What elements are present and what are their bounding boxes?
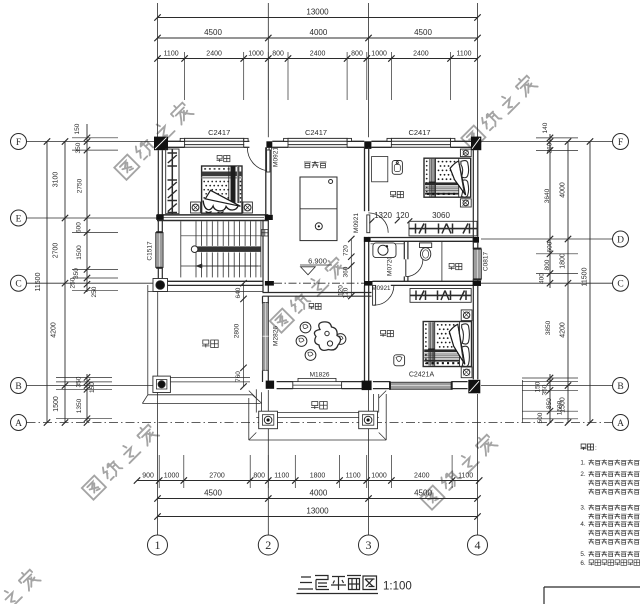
wall middle-room left bbox=[262, 296, 264, 303]
dim extension stubs right bbox=[536, 137, 578, 139]
dim line left small chain bbox=[86, 124, 88, 292]
bed bedroom1 fold triangle bbox=[205, 190, 240, 206]
tea set stool2 bbox=[296, 336, 307, 347]
door M0921 master arc bbox=[374, 285, 394, 305]
svg-text:2750: 2750 bbox=[77, 178, 84, 193]
wall axis 3 upper bbox=[364, 147, 366, 211]
axis bubble A right bbox=[613, 415, 629, 431]
stair handrail bbox=[193, 246, 261, 252]
wall middle-room top bbox=[263, 292, 372, 294]
stair flight outline bbox=[181, 235, 261, 237]
wall axis B seg1 bbox=[277, 381, 293, 383]
svg-text:1500: 1500 bbox=[53, 396, 60, 412]
wall axis 3 lower bbox=[364, 237, 366, 281]
svg-text:1800: 1800 bbox=[310, 472, 326, 479]
svg-text:4.: 4. bbox=[580, 521, 586, 528]
column F/3 bbox=[364, 141, 371, 149]
wall bathroom inner divider bbox=[441, 241, 443, 281]
wall top exterior segment 3 bbox=[272, 140, 288, 142]
svg-text:4: 4 bbox=[475, 538, 481, 552]
label tea room bbox=[309, 304, 315, 310]
tea set table bbox=[314, 322, 340, 351]
window C1517 in left wall bbox=[156, 233, 163, 268]
nightstand bedroom1 right bbox=[243, 202, 253, 213]
dim line top total 13000 bbox=[158, 17, 478, 19]
svg-text:2: 2 bbox=[265, 538, 271, 552]
notes header bbox=[581, 444, 587, 450]
svg-text:1500: 1500 bbox=[76, 245, 83, 260]
inner dim 640/2800/760 bbox=[243, 283, 245, 386]
terrace-bottom parapet lines bbox=[255, 389, 257, 412]
dim line right 4000/1800/4200/1500 bbox=[567, 142, 569, 423]
axis bubble B left bbox=[11, 378, 27, 394]
bed master dotted edge bbox=[425, 324, 427, 326]
tea set stool3 bbox=[335, 334, 346, 345]
svg-text:350: 350 bbox=[75, 142, 82, 153]
terrace-left top edge line bbox=[148, 291, 263, 293]
axis bubble 1 bottom bbox=[148, 535, 168, 555]
grid axis line F bbox=[27, 141, 157, 143]
svg-text:760: 760 bbox=[235, 371, 242, 382]
sink counter bbox=[373, 243, 396, 258]
column F/1 bbox=[154, 137, 168, 151]
grid axis line D bbox=[481, 238, 613, 240]
svg-text:1100: 1100 bbox=[164, 50, 179, 57]
wall axis D bbox=[371, 237, 473, 239]
svg-text:1000: 1000 bbox=[371, 472, 387, 479]
svg-text:B: B bbox=[15, 382, 21, 392]
axis bubble A left bbox=[11, 415, 27, 431]
watermark 1 top-left bbox=[114, 100, 193, 180]
label terrace-bottom bbox=[311, 402, 319, 410]
stair landing edge bbox=[180, 221, 182, 277]
svg-text::: : bbox=[595, 445, 597, 452]
svg-text:C2421A: C2421A bbox=[409, 372, 435, 379]
svg-text:1800: 1800 bbox=[560, 253, 567, 269]
svg-text:2400: 2400 bbox=[413, 50, 429, 57]
wall axis 2 interior bbox=[265, 147, 267, 215]
door M2826 sliding panels bbox=[263, 303, 269, 371]
svg-text:4500: 4500 bbox=[414, 488, 432, 497]
svg-text:F: F bbox=[618, 138, 623, 148]
desk bedroom2 bbox=[372, 157, 388, 182]
svg-text:3850: 3850 bbox=[545, 320, 552, 335]
svg-text:3640: 3640 bbox=[544, 188, 551, 203]
wall axis B seg4 bbox=[451, 381, 467, 383]
svg-text:140: 140 bbox=[542, 122, 549, 133]
svg-text:2700: 2700 bbox=[209, 472, 225, 479]
terrace-left parapet bottom lines bbox=[158, 376, 250, 378]
bed bedroom1 duvet squiggle bbox=[203, 201, 238, 211]
svg-text:1000: 1000 bbox=[248, 50, 264, 57]
svg-text:1.: 1. bbox=[580, 460, 586, 467]
svg-text:1100: 1100 bbox=[274, 472, 289, 479]
window C2421A in B wall bbox=[390, 382, 451, 389]
watermark 3 center bbox=[270, 255, 347, 332]
grid axis line A dash-dot across bbox=[27, 422, 613, 424]
axis bubble 4 bottom bbox=[468, 535, 488, 555]
dim line right small chain bbox=[549, 134, 551, 288]
bed master blanket stripe bbox=[428, 322, 435, 366]
column E/1 bbox=[156, 215, 164, 220]
wall axis E bbox=[157, 215, 268, 221]
svg-text:1320: 1320 bbox=[374, 211, 392, 220]
wall left exterior lower bbox=[157, 268, 159, 281]
nightstand bedroom1 left bbox=[191, 202, 201, 213]
svg-text:13000: 13000 bbox=[306, 506, 329, 515]
axis bubble 2 bottom bbox=[258, 535, 278, 555]
svg-text:C2417: C2417 bbox=[208, 128, 230, 137]
wall axis B seg3 bbox=[373, 381, 391, 383]
column D/4 bbox=[473, 237, 479, 243]
svg-text:M2826: M2826 bbox=[273, 326, 280, 346]
wall axis C stair part bbox=[163, 280, 263, 282]
axis bubble D right bbox=[613, 231, 629, 247]
wall top exterior segment 2 bbox=[244, 140, 250, 142]
svg-text:C1517: C1517 bbox=[147, 241, 154, 261]
svg-text:C2417: C2417 bbox=[408, 128, 430, 137]
bed master foot bands bbox=[424, 349, 459, 352]
dim line top 4500/4000/4500 bbox=[158, 37, 478, 39]
terrace-left parapet left lines bbox=[147, 285, 149, 395]
stair label down bbox=[262, 230, 269, 237]
label bathroom bbox=[449, 264, 455, 270]
svg-text:M0720: M0720 bbox=[387, 256, 394, 276]
svg-text:C2417: C2417 bbox=[305, 128, 327, 137]
label bedroom1 bbox=[217, 156, 223, 162]
bed bedroom2 mattress dots bbox=[438, 161, 440, 163]
column C/3 bbox=[364, 281, 373, 286]
note item 4c bbox=[589, 539, 595, 545]
bed bedroom2 blanket stripe bbox=[429, 159, 436, 197]
svg-text:D: D bbox=[617, 235, 624, 245]
column F/2 bbox=[266, 141, 272, 149]
axis bubble B right bbox=[613, 378, 629, 394]
grid axis line C bbox=[27, 282, 157, 284]
dim line bottom small chain bbox=[137, 480, 479, 482]
dim extension verticals top minor bbox=[184, 52, 186, 100]
wall top exterior segment 5 bbox=[371, 140, 391, 142]
svg-text:1100: 1100 bbox=[456, 50, 471, 57]
svg-text:13000: 13000 bbox=[306, 8, 329, 17]
nightstand master top bbox=[461, 310, 472, 321]
dim extension stubs left bbox=[72, 137, 118, 139]
label terrace-left bbox=[202, 340, 210, 348]
svg-text:150: 150 bbox=[535, 381, 542, 392]
svg-text:A: A bbox=[617, 419, 624, 429]
svg-text:1100: 1100 bbox=[458, 472, 473, 479]
label master bedroom bbox=[380, 331, 386, 337]
closet master bbox=[410, 289, 471, 303]
svg-text:1: 1 bbox=[155, 538, 161, 552]
svg-text:1500: 1500 bbox=[557, 400, 564, 415]
axis bubble 3 bottom bbox=[359, 535, 379, 555]
svg-text:350: 350 bbox=[542, 384, 549, 395]
svg-text:A: A bbox=[15, 419, 22, 429]
tea set stool1 bbox=[300, 322, 311, 333]
stair treads bbox=[195, 221, 197, 246]
bed bedroom1 mattress dots bbox=[203, 181, 205, 183]
wall top exterior segment 6 bbox=[451, 140, 472, 142]
bed master fold wedge bbox=[449, 324, 465, 364]
door M0921 bedroom1 arc bbox=[247, 148, 266, 171]
svg-text:3100: 3100 bbox=[53, 172, 60, 188]
column C/1 ornate bbox=[153, 279, 168, 292]
svg-text:3.: 3. bbox=[580, 505, 586, 512]
column E/2 bbox=[265, 215, 273, 220]
door M1826 sliding panels bbox=[293, 382, 342, 389]
svg-text:800: 800 bbox=[544, 259, 551, 270]
wardrobe bedroom1 bbox=[166, 149, 179, 214]
svg-text:4000: 4000 bbox=[310, 488, 328, 497]
svg-text:4200: 4200 bbox=[560, 322, 567, 338]
terrace-bottom slab outline bbox=[248, 398, 250, 440]
bed bedroom2 pillows bbox=[458, 158, 460, 197]
column B/1 ornate bbox=[153, 376, 171, 392]
axis bubble F left bbox=[11, 134, 27, 150]
dim line top small chain bbox=[158, 58, 478, 60]
wall top exterior segment 4 bbox=[347, 140, 364, 142]
column B/4 bbox=[468, 380, 480, 394]
svg-text:2400: 2400 bbox=[206, 50, 222, 57]
dim line bottom 4500/4000/4500 bbox=[158, 498, 478, 500]
stool bedroom2 bbox=[392, 161, 402, 175]
door M0921 bedroom1 leaf bbox=[267, 150, 270, 172]
wall right exterior lower bbox=[472, 279, 474, 281]
svg-text:M1826: M1826 bbox=[310, 372, 330, 379]
watermark 4 bottom-left bbox=[82, 422, 159, 499]
wall axis 3 C-to-B bbox=[364, 285, 366, 381]
svg-text:5.: 5. bbox=[580, 551, 586, 558]
terrace-bottom slab corner miters bbox=[249, 391, 256, 399]
svg-text:4000: 4000 bbox=[560, 182, 567, 198]
grid axis vertical 4 bbox=[477, 3, 479, 137]
wall axis C master part bbox=[373, 280, 482, 282]
svg-text:1100: 1100 bbox=[346, 472, 361, 479]
label game hall bbox=[304, 162, 311, 168]
wall stair-hall boundary bbox=[262, 220, 264, 293]
svg-text:360: 360 bbox=[547, 142, 554, 153]
svg-text:4200: 4200 bbox=[51, 322, 58, 338]
svg-text:4500: 4500 bbox=[204, 28, 222, 37]
svg-text:800: 800 bbox=[351, 50, 363, 57]
grid axis vertical 2 bbox=[267, 3, 269, 137]
svg-text:2700: 2700 bbox=[53, 243, 60, 259]
grid axis vertical 1 bbox=[157, 3, 159, 137]
grid axis vertical 3 bbox=[368, 3, 370, 137]
window C2417 no.1 bbox=[184, 137, 244, 139]
axis bubble C left bbox=[11, 275, 27, 291]
column C/4 bbox=[473, 281, 481, 286]
terrace-bottom ornate column right bbox=[359, 411, 378, 429]
svg-text:1:100: 1:100 bbox=[383, 581, 412, 593]
svg-text:250: 250 bbox=[91, 286, 98, 297]
bed bedroom2 foot bands bbox=[425, 182, 459, 185]
grid axis dashdot C inside plan bbox=[274, 282, 364, 284]
grid axis line E bbox=[27, 217, 157, 219]
door M0720 arc bbox=[406, 260, 423, 277]
svg-text:6.: 6. bbox=[580, 560, 586, 567]
wall top exterior segment 1 bbox=[168, 140, 185, 142]
bed master foot dotted row bbox=[426, 362, 428, 364]
svg-text:800: 800 bbox=[272, 50, 284, 57]
toilet bbox=[420, 243, 432, 248]
stair direction arrow bbox=[196, 265, 258, 267]
svg-text:11500: 11500 bbox=[35, 272, 42, 291]
svg-text:3: 3 bbox=[366, 538, 372, 552]
terrace-bottom ornate column left bbox=[259, 411, 278, 429]
column B/3 bbox=[362, 381, 372, 391]
svg-text:640: 640 bbox=[235, 287, 242, 298]
dim line bottom total 13000 bbox=[158, 516, 478, 518]
label bedroom2 bbox=[390, 192, 396, 198]
wall right exterior upper bbox=[472, 150, 474, 237]
svg-text:F: F bbox=[16, 138, 21, 148]
column D/3 bbox=[364, 237, 371, 242]
dim extension verticals bottom minor bbox=[158, 455, 160, 488]
bed bedroom2 frame bbox=[424, 158, 471, 197]
note item 2c bbox=[589, 489, 595, 495]
note item 4b bbox=[589, 530, 595, 536]
window C0817 bay bbox=[473, 249, 481, 279]
svg-text:M0921: M0921 bbox=[273, 147, 280, 167]
axis bubble C right bbox=[613, 275, 629, 291]
column C/2 bbox=[265, 281, 274, 286]
wall left exterior upper bbox=[157, 150, 159, 232]
svg-text:720: 720 bbox=[343, 245, 350, 256]
grid axis line B bbox=[27, 385, 157, 387]
bed master mattress dots bbox=[437, 324, 439, 326]
nightstand master bottom bbox=[461, 367, 472, 378]
note item 2b bbox=[589, 480, 595, 486]
watermark 2 top-right bbox=[461, 73, 537, 149]
svg-text:600: 600 bbox=[76, 222, 83, 233]
tea set stool4 bbox=[305, 350, 316, 361]
column B/2 bbox=[266, 381, 274, 389]
wall axis B seg2 bbox=[342, 381, 364, 383]
svg-text:800: 800 bbox=[253, 472, 265, 479]
bed bedroom1 head dotted strip bbox=[204, 168, 206, 169]
svg-text:2.: 2. bbox=[580, 471, 586, 478]
bed bedroom1 blanket stripes bbox=[228, 166, 230, 203]
svg-text:150: 150 bbox=[74, 123, 81, 134]
svg-text:1000: 1000 bbox=[371, 50, 387, 57]
door M0720 leaf bbox=[405, 259, 407, 276]
svg-text:2400: 2400 bbox=[310, 50, 326, 57]
title block corner bbox=[544, 586, 640, 588]
note item 3b bbox=[589, 513, 595, 519]
bed bedroom1 frame bbox=[202, 166, 242, 213]
svg-text:400: 400 bbox=[539, 273, 546, 284]
svg-text:2400: 2400 bbox=[414, 472, 430, 479]
nightstand bedroom2 bottom bbox=[460, 199, 471, 207]
svg-text:3060: 3060 bbox=[432, 211, 450, 220]
svg-text:C: C bbox=[617, 280, 623, 290]
svg-text:250: 250 bbox=[70, 277, 77, 288]
svg-text:500: 500 bbox=[537, 412, 544, 423]
svg-text:4500: 4500 bbox=[204, 488, 222, 497]
watermark 6 corner fragment bbox=[0, 567, 41, 609]
dim line left 11500 bbox=[46, 142, 48, 423]
terrace-left slab outline bbox=[148, 394, 253, 396]
svg-text:4500: 4500 bbox=[414, 28, 432, 37]
bed bedroom2 fold wedge bbox=[450, 161, 466, 195]
svg-text:M0921: M0921 bbox=[372, 285, 391, 292]
axis bubble E left bbox=[11, 210, 27, 226]
door M0921 master leaf bbox=[373, 285, 376, 305]
svg-text:C: C bbox=[15, 280, 21, 290]
svg-text:120: 120 bbox=[396, 211, 410, 220]
svg-text:850: 850 bbox=[546, 398, 553, 409]
svg-text:360: 360 bbox=[343, 266, 350, 277]
bed master frame bbox=[423, 322, 471, 367]
svg-text:120: 120 bbox=[338, 285, 345, 296]
svg-text:150: 150 bbox=[89, 382, 96, 393]
window C2417 no.3 bbox=[391, 137, 451, 139]
svg-text:6.900: 6.900 bbox=[308, 257, 327, 266]
door M0921 axis3 leaf bbox=[367, 215, 370, 233]
window C2417 no.2 bbox=[288, 137, 348, 139]
watermark 5 bottom-center-right bbox=[420, 432, 497, 509]
bed bedroom2 foot dotted row bbox=[427, 193, 429, 195]
bed bedroom2 dotted edge bbox=[426, 161, 428, 163]
svg-text:B: B bbox=[617, 382, 623, 392]
svg-text:2800: 2800 bbox=[234, 323, 241, 338]
svg-text:11500: 11500 bbox=[582, 267, 589, 286]
stool master bbox=[394, 355, 405, 366]
column F/4 bbox=[471, 137, 481, 151]
bed bedroom1 dark band bbox=[202, 172, 242, 177]
dim line left 3100/2700/4200/1500 bbox=[64, 142, 66, 423]
svg-text:M0921: M0921 bbox=[353, 213, 360, 233]
svg-text:4000: 4000 bbox=[310, 28, 328, 37]
svg-text:C0817: C0817 bbox=[483, 252, 490, 272]
axis bubble F right bbox=[613, 134, 629, 150]
svg-text:600: 600 bbox=[547, 241, 554, 252]
inner dim 720/360/120 bbox=[350, 239, 352, 296]
svg-text:1350: 1350 bbox=[76, 398, 83, 413]
svg-text:900: 900 bbox=[142, 472, 154, 479]
svg-text:1000: 1000 bbox=[164, 472, 180, 479]
bed master pillows bbox=[459, 322, 461, 367]
dim line right 11500 bbox=[589, 142, 591, 423]
door M0921 axis3 arc bbox=[368, 213, 388, 233]
svg-text:E: E bbox=[16, 214, 22, 224]
title third floor plan bbox=[298, 577, 313, 589]
wall bathroom partition bbox=[403, 241, 405, 259]
nightstand bedroom2 top bbox=[460, 149, 471, 157]
table game hall bbox=[300, 177, 337, 241]
closet bedroom2 bbox=[409, 221, 477, 236]
